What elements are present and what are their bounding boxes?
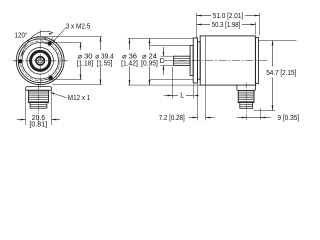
hole radial tick bottom right xyxy=(49,75,53,81)
body circle dia 36 xyxy=(18,39,62,83)
svg-text:[0.81]: [0.81] xyxy=(29,122,47,129)
dim ⌀ 30 arrow up xyxy=(80,43,82,48)
dim 20.6 line right part xyxy=(52,119,61,121)
dim ⌀ 24 arrow up xyxy=(149,39,151,44)
svg-text:[0.95]: [0.95] xyxy=(141,60,158,67)
ext line dia30 bottom from front view xyxy=(44,79,82,81)
front view centerline vertical xyxy=(39,30,41,89)
svg-text:120°: 120° xyxy=(15,31,28,39)
flange dia 36 side view xyxy=(193,38,197,83)
120 degree arc xyxy=(22,31,54,56)
dim ⌀ 39.4 arrow up xyxy=(100,37,102,42)
leader line M12 xyxy=(51,93,67,98)
boss circle xyxy=(27,48,54,75)
dim 7.2 extension bar left xyxy=(197,84,199,120)
body dia 39.4 side view xyxy=(200,36,255,85)
dim 50.3 extension line right xyxy=(255,22,257,35)
arc arrowhead upper right xyxy=(49,33,54,35)
svg-text:7.2 [0.28]: 7.2 [0.28] xyxy=(159,115,185,122)
connector thread body side view xyxy=(238,90,254,102)
connector centerline below xyxy=(38,84,40,125)
body clamp groove line xyxy=(205,36,207,84)
connector end cap line side view 2 xyxy=(240,105,253,107)
connector centerline side view xyxy=(245,83,247,121)
shaft thread lines xyxy=(174,58,191,60)
dim 54.7 extension line top xyxy=(259,40,297,42)
connector neck side view xyxy=(237,85,256,90)
front view centerline horizontal xyxy=(14,60,68,62)
dim 20.6 arrow left xyxy=(21,119,26,121)
mounting hole M2.5 top right xyxy=(48,41,52,45)
dim 50.3 arrows xyxy=(197,24,202,26)
dim D arrow bottom xyxy=(163,65,165,75)
connector end cap front view xyxy=(30,103,47,109)
tangent tick dia36 top xyxy=(36,38,47,40)
dim ⌀ 36 arrow up xyxy=(129,39,131,44)
ext line dia36/24 bottom carry to side body xyxy=(128,84,201,86)
shaft ring xyxy=(36,57,44,65)
dim 20.6 extension line right xyxy=(51,91,53,126)
hole radial tick top right xyxy=(48,40,51,46)
shaft collar thick ring xyxy=(31,51,50,70)
boss dia 24 side view xyxy=(190,46,193,76)
dim ⌀ 39.4 arrow down xyxy=(100,80,102,85)
dim 51.0 extension line right xyxy=(259,13,261,35)
svg-text:[1.18]: [1.18] xyxy=(77,60,93,67)
ext line dia30 top from front view xyxy=(44,42,82,44)
dim ⌀ 30 arrow down xyxy=(80,75,82,80)
dim L extension bar left xyxy=(172,67,174,99)
side view axis centerline xyxy=(165,60,269,62)
dim 7.2 line with arrows xyxy=(189,117,198,119)
connector thread lines front view xyxy=(29,91,49,93)
dim 9 extension bar right xyxy=(260,108,262,120)
mounting hole M2.5 bottom right xyxy=(49,76,53,80)
bolt circle xyxy=(20,41,60,81)
svg-text:9 [0.35]: 9 [0.35] xyxy=(277,115,299,122)
leader arrowhead M12 xyxy=(50,92,55,94)
dim ⌀ 24 arrow down xyxy=(149,80,151,85)
connector end cap line 2 xyxy=(30,105,47,107)
dim 50.3 line xyxy=(197,24,211,26)
dim 51.0 arrows xyxy=(197,15,202,17)
connector end cap line xyxy=(30,103,47,105)
dim 7.2 extension bar right xyxy=(205,86,207,121)
connector thread body front view xyxy=(29,90,49,102)
radial extension line for hole at 60deg xyxy=(50,36,53,42)
dim ⌀ 30 vertical line upper xyxy=(80,43,82,51)
dim 54.7 extension line bottom xyxy=(254,110,275,112)
svg-text:L: L xyxy=(180,93,184,100)
ring dia 30 side view xyxy=(198,42,201,79)
shaft center circle xyxy=(38,59,42,63)
svg-text:D: D xyxy=(160,58,165,65)
svg-text:51.0 [2.01]: 51.0 [2.01] xyxy=(213,13,244,20)
ext line dia36/24 top carry to side flange xyxy=(128,38,194,40)
dim ⌀ 30 vertical line lower xyxy=(80,67,82,80)
dim 54.7 line xyxy=(272,41,274,67)
pilot circle dia 30 xyxy=(22,43,59,80)
dim ⌀ 36 vertical line upper xyxy=(129,39,131,51)
svg-text:M12 x 1: M12 x 1 xyxy=(68,95,91,102)
connector end cap line side view xyxy=(240,104,253,106)
svg-text:54.7 [2.15]: 54.7 [2.15] xyxy=(266,70,296,77)
ext line dia39.4 bottom from front view xyxy=(53,84,103,86)
dim 51.0 extension line left xyxy=(196,13,198,38)
ext line dia39.4 top from front view xyxy=(36,36,102,38)
svg-text:3 x M2.5: 3 x M2.5 xyxy=(66,24,91,31)
leader line 3xM2.5 xyxy=(52,28,66,43)
connector end cap side view xyxy=(240,103,253,109)
connector neck front view xyxy=(26,87,52,91)
dim D extension bottom xyxy=(161,64,173,66)
dim L extension bar right xyxy=(193,85,195,99)
dim L line with arrows xyxy=(164,95,173,97)
svg-text:[1.42]: [1.42] xyxy=(121,60,138,67)
leader arrowhead 3xM2.5 xyxy=(52,39,56,43)
ext line dia24 boss bottom xyxy=(150,79,194,81)
dim ⌀ 24 vertical line upper xyxy=(149,39,151,51)
connector thread lines side view xyxy=(238,91,254,93)
arc arrowhead left lower xyxy=(22,51,24,56)
dim ⌀ 36 vertical line lower xyxy=(129,67,131,86)
dim 9 line with arrows xyxy=(237,117,247,119)
dim ⌀ 39.4 vertical line lower xyxy=(100,67,102,85)
dim 54.7 arrows xyxy=(272,41,274,46)
ext line dia24 boss top xyxy=(150,45,191,47)
rear cap side view xyxy=(255,37,258,83)
svg-text:[1.55]: [1.55] xyxy=(97,60,113,67)
dim ⌀ 24 vertical line lower xyxy=(149,67,151,86)
dim ⌀ 39.4 vertical line upper xyxy=(100,37,102,51)
flange outer circle dia 39.4 xyxy=(16,37,64,85)
shaft side view xyxy=(174,56,191,65)
dim 20.6 extension line left xyxy=(25,91,27,126)
dim D extension top xyxy=(161,55,173,57)
radial extension line left xyxy=(13,60,16,62)
dim 20.6 line left part xyxy=(17,119,26,121)
dim 51.0 line xyxy=(197,15,212,17)
dim 20.6 arrow right xyxy=(52,119,57,121)
mounting hole M2.5 left xyxy=(18,59,22,63)
dim ⌀ 36 arrow down xyxy=(129,80,131,85)
dim D arrow top xyxy=(163,47,165,56)
svg-text:50.3 [1.98]: 50.3 [1.98] xyxy=(212,22,241,29)
